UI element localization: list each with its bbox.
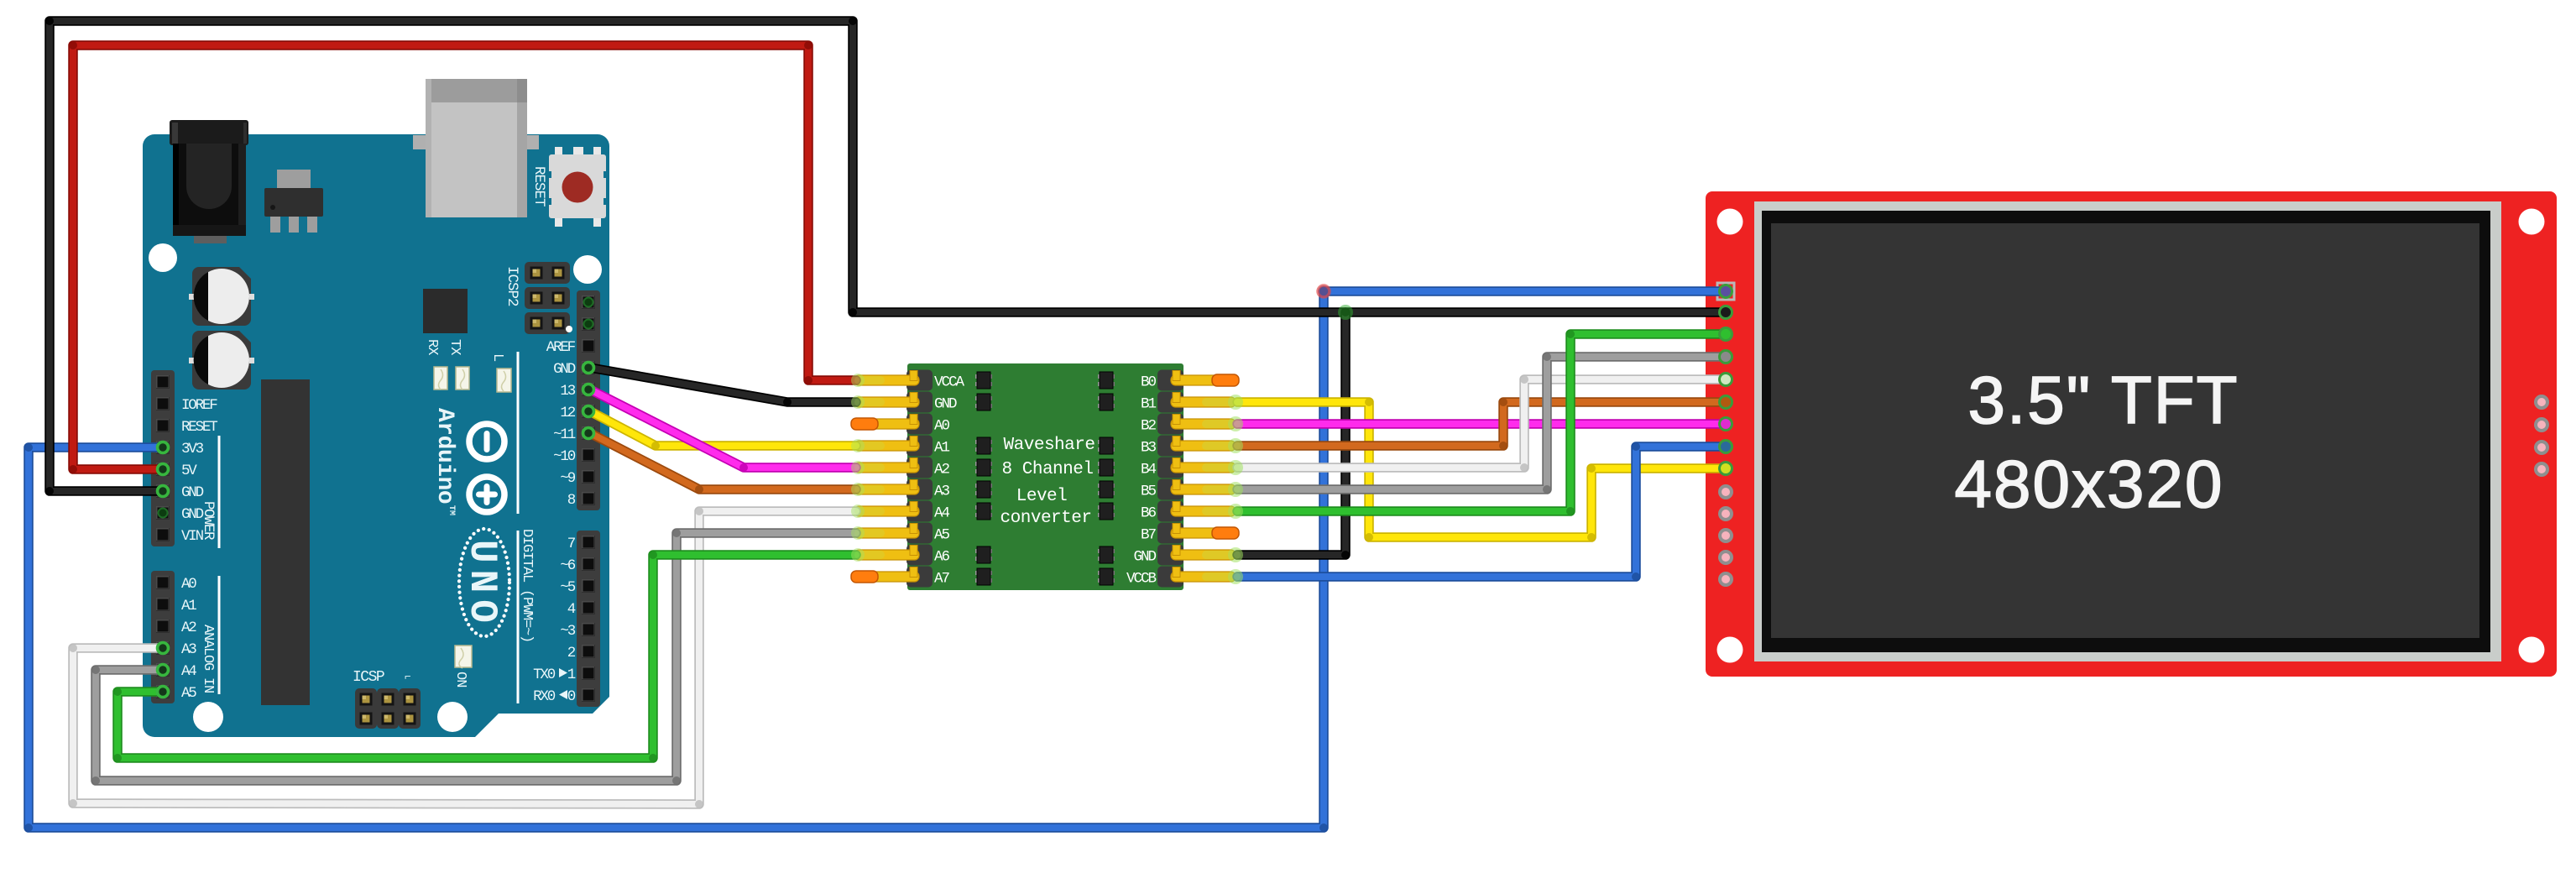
- svg-text:RX: RX: [424, 339, 440, 355]
- svg-text:3.5" TFT: 3.5" TFT: [1968, 363, 2239, 437]
- svg-text:VCCB: VCCB: [1126, 571, 1157, 588]
- connection glows converter left: [851, 374, 885, 562]
- svg-text:IOREF: IOREF: [181, 397, 217, 414]
- svg-text:ICSP2: ICSP2: [504, 266, 520, 306]
- converter chips right column: [1098, 372, 1115, 585]
- svg-text:A2: A2: [934, 462, 950, 478]
- svg-text:converter: converter: [1001, 509, 1092, 528]
- DC power jack: [170, 120, 248, 243]
- wire A3 to converter A4 (white): [69, 507, 856, 808]
- svg-text:13: 13: [560, 383, 575, 400]
- converter right pin labels: [1126, 374, 1157, 588]
- mounting hole bottom-left: [193, 702, 223, 732]
- ICSP2 header: [525, 262, 572, 334]
- svg-text:B1: B1: [1141, 396, 1157, 413]
- converter left pin legs: [854, 371, 919, 583]
- wire B1 to TFT (yellow): [1237, 398, 1726, 541]
- svg-text:B7: B7: [1141, 527, 1157, 544]
- svg-text:GND: GND: [553, 361, 576, 378]
- digital pin labels: [533, 339, 576, 705]
- TFT hole bottom-right: [2519, 637, 2545, 663]
- svg-text:POWER: POWER: [200, 501, 217, 541]
- digital header pins upper: [582, 295, 595, 505]
- converter stub B7: [1212, 527, 1239, 539]
- UNO dotted ellipse: [459, 529, 509, 636]
- converter left pin header: [907, 370, 933, 588]
- converter chips left column: [975, 372, 992, 585]
- svg-text:A4: A4: [934, 505, 950, 522]
- logo plus: [484, 484, 490, 505]
- TFT black bezel: [1762, 211, 2490, 652]
- svg-text:A5: A5: [181, 685, 196, 702]
- converter left pin labels: [934, 374, 965, 588]
- node: pad square at TFT pin 1: [1717, 283, 1734, 300]
- svg-text:A3: A3: [934, 484, 950, 500]
- svg-text:Waveshare: Waveshare: [1004, 436, 1095, 455]
- TFT pin contacts: [1720, 285, 1732, 475]
- wire A5 to converter A6 (green): [113, 551, 856, 762]
- TFT screen text line2: [1955, 447, 2224, 521]
- power pin labels: [181, 397, 217, 545]
- silk divider lines: [219, 352, 518, 703]
- svg-text:ANALOG IN: ANALOG IN: [200, 625, 216, 693]
- svg-text:B0: B0: [1141, 374, 1157, 391]
- wire D13 to converter A2 (magenta): [590, 389, 856, 472]
- svg-text:A2: A2: [181, 620, 196, 636]
- converter title text: [1001, 436, 1095, 528]
- TFT screen: [1771, 223, 2479, 638]
- wire B3 to TFT (orange): [1237, 398, 1726, 450]
- svg-text:480x320: 480x320: [1955, 447, 2224, 521]
- svg-text:VCCA: VCCA: [934, 374, 965, 391]
- wire 5V to VCCA (red): [69, 41, 856, 473]
- svg-text:Arduino: Arduino: [431, 408, 457, 504]
- wire B2 to TFT (magenta): [1237, 419, 1726, 429]
- converter stub A0: [851, 418, 878, 430]
- converter right pin header: [1157, 370, 1183, 588]
- svg-text:RESET: RESET: [181, 419, 217, 436]
- converter right pin legs: [1171, 371, 1236, 583]
- svg-text:GND: GND: [181, 506, 204, 523]
- svg-text:~5: ~5: [560, 579, 575, 596]
- TFT screen text line1: [1968, 363, 2239, 437]
- svg-text:B2: B2: [1141, 418, 1157, 435]
- svg-text:TX0: TX0: [533, 667, 556, 683]
- RX TX L LEDs: [434, 367, 511, 392]
- TFT unused pads left: [1720, 486, 1732, 585]
- svg-text:A1: A1: [934, 440, 950, 457]
- TFT hole top-left: [1717, 209, 1743, 235]
- svg-text:AREF: AREF: [546, 339, 576, 356]
- svg-text:A0: A0: [181, 576, 196, 593]
- converter stub B0: [1212, 374, 1239, 386]
- mounting hole top-left: [149, 243, 177, 272]
- svg-text:12: 12: [560, 405, 575, 421]
- svg-text:A4: A4: [181, 663, 196, 680]
- node GND junction: [1338, 305, 1353, 320]
- Arduino UNO board: [143, 134, 609, 737]
- svg-text:GND: GND: [1133, 549, 1156, 566]
- digital header pins lower: [582, 536, 595, 702]
- Waveshare level converter board: [907, 363, 1183, 590]
- svg-text:B6: B6: [1141, 505, 1157, 522]
- svg-text:GND: GND: [181, 484, 204, 501]
- svg-text:GND: GND: [934, 396, 957, 413]
- power header pins: [156, 375, 170, 541]
- svg-text:A3: A3: [181, 641, 196, 658]
- svg-text:~9: ~9: [560, 470, 575, 487]
- TFT pads right: [2536, 396, 2547, 475]
- svg-text:~6: ~6: [560, 557, 575, 574]
- svg-text:Level: Level: [1016, 487, 1068, 506]
- reset button: [547, 147, 608, 227]
- header socket strip (long black): [261, 379, 310, 705]
- USB connector: [413, 79, 539, 217]
- wire B4 to TFT (white): [1237, 375, 1726, 472]
- svg-text:L: L: [489, 353, 505, 362]
- svg-text:TM: TM: [447, 505, 456, 515]
- svg-text:⌐: ⌐: [405, 671, 411, 683]
- connection glows converter right: [1202, 395, 1243, 584]
- voltage regulator: [264, 170, 323, 233]
- svg-text:B3: B3: [1141, 440, 1157, 457]
- analog header strip: [151, 571, 175, 703]
- TFT silver frame: [1754, 201, 2501, 661]
- wire B6 to TFT (green): [1237, 330, 1726, 515]
- svg-text:3V3: 3V3: [181, 441, 204, 457]
- svg-text:5V: 5V: [181, 463, 197, 479]
- wire 3V3 to TFT VCC (blue): [24, 287, 1726, 832]
- svg-text:A5: A5: [934, 527, 950, 544]
- microcontroller IC: [423, 289, 468, 333]
- node blue bend marker: [1318, 285, 1330, 297]
- wire VCCB to TFT (blue): [1237, 442, 1726, 581]
- svg-text:TX: TX: [447, 339, 462, 355]
- svg-text:A7: A7: [934, 571, 950, 588]
- svg-text:8 Channel: 8 Channel: [1002, 460, 1094, 479]
- TFT hole bottom-left: [1717, 637, 1743, 663]
- svg-text:~3: ~3: [560, 623, 575, 640]
- Arduino logo infinity: [469, 424, 504, 515]
- svg-text:B5: B5: [1141, 484, 1157, 500]
- Arduino connection rings: [158, 363, 594, 698]
- wire A4 to converter A5 (gray): [91, 529, 856, 785]
- svg-text:VIN: VIN: [181, 528, 204, 545]
- ON LED: [455, 646, 472, 667]
- svg-text:RESET: RESET: [530, 166, 547, 207]
- svg-text:UNO: UNO: [460, 540, 504, 630]
- svg-text:ON: ON: [452, 672, 468, 687]
- svg-text:A1: A1: [181, 598, 196, 614]
- svg-text:RX0: RX0: [533, 688, 556, 705]
- wire GND to converter GND (black): [590, 368, 856, 406]
- wire converter GND-B to GND bus (black): [1237, 312, 1350, 559]
- svg-text:~10: ~10: [553, 448, 576, 465]
- digital header strip upper: [577, 290, 600, 510]
- analog pin labels: [181, 576, 196, 702]
- svg-text:ICSP: ICSP: [353, 669, 384, 686]
- mounting hole bottom-right: [437, 702, 468, 732]
- converter stub A7: [851, 571, 878, 583]
- 3.5 inch TFT display board: [1706, 191, 2557, 677]
- power header strip: [151, 370, 175, 546]
- wire GND loop to TFT GND (black): [45, 17, 1726, 495]
- ICSP header (bottom): [355, 688, 421, 729]
- analog header pins: [156, 576, 170, 698]
- svg-text:B4: B4: [1141, 462, 1157, 478]
- mounting hole top-right: [573, 255, 602, 284]
- wire B5 to TFT (gray): [1237, 353, 1726, 494]
- svg-text:DIGITAL (PWM=~): DIGITAL (PWM=~): [519, 529, 535, 642]
- TFT hole top-right: [2519, 209, 2545, 235]
- svg-text:A6: A6: [934, 549, 950, 566]
- electrolytic capacitors: [189, 267, 254, 389]
- wire D11 to converter A3 (orange): [590, 433, 856, 494]
- svg-text:~11: ~11: [553, 426, 576, 443]
- logo minus: [484, 431, 490, 452]
- svg-text:A0: A0: [934, 418, 950, 435]
- wire D12 to converter A1 (yellow): [590, 411, 856, 450]
- digital header strip lower: [577, 531, 600, 707]
